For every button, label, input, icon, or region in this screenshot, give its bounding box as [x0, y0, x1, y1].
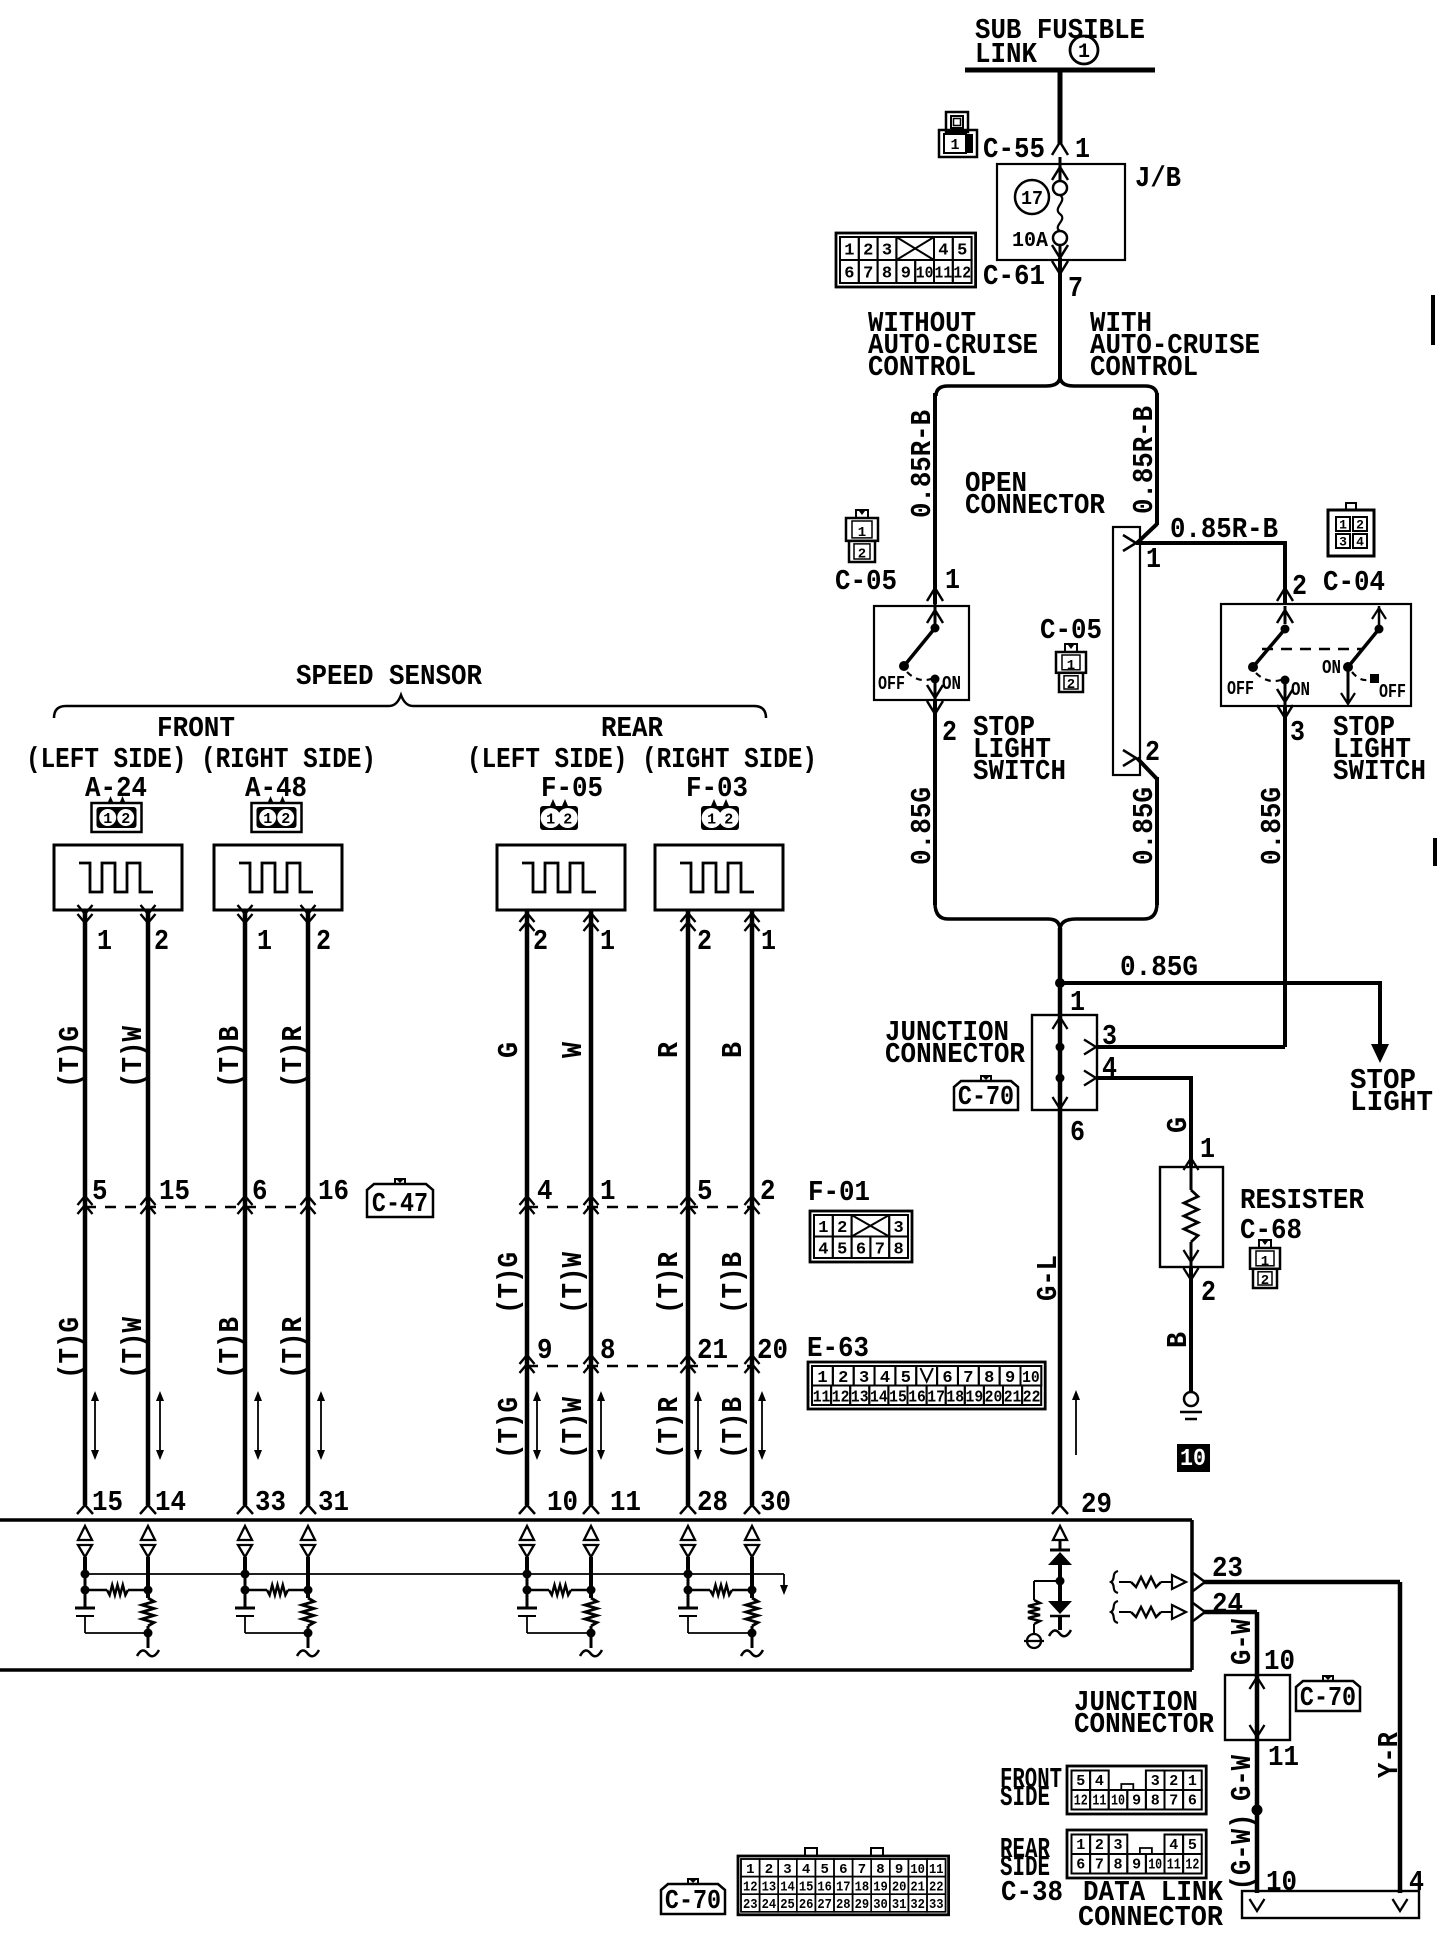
svg-text:24: 24	[762, 1897, 777, 1913]
svg-text:22: 22	[929, 1879, 944, 1895]
svg-text:17: 17	[927, 1388, 945, 1407]
svg-text:8: 8	[882, 265, 892, 284]
svg-text:R: R	[653, 1041, 686, 1058]
svg-text:11: 11	[813, 1388, 831, 1407]
svg-text:5: 5	[92, 1175, 108, 1208]
svg-text:11: 11	[1268, 1741, 1299, 1774]
svg-text:3: 3	[1339, 535, 1347, 550]
svg-text:15: 15	[159, 1175, 190, 1208]
svg-text:10: 10	[547, 1486, 578, 1519]
svg-text:CONNECTOR: CONNECTOR	[885, 1038, 1026, 1071]
svg-text:0.85R-B: 0.85R-B	[1128, 406, 1161, 514]
svg-text:25: 25	[780, 1897, 795, 1913]
svg-text:0.85R-B: 0.85R-B	[1170, 513, 1278, 546]
svg-text:12: 12	[953, 265, 971, 284]
svg-text:8: 8	[893, 1240, 903, 1259]
svg-text:11: 11	[610, 1486, 641, 1519]
svg-text:10: 10	[1264, 1645, 1295, 1678]
svg-text:F-05: F-05	[541, 772, 603, 805]
svg-text:4: 4	[938, 242, 948, 261]
svg-text:1: 1	[263, 811, 272, 828]
svg-text:1: 1	[746, 1862, 754, 1878]
svg-text:6: 6	[856, 1240, 866, 1259]
svg-text:2: 2	[563, 812, 572, 829]
svg-text:6: 6	[844, 265, 854, 284]
svg-text:2: 2	[1292, 570, 1307, 603]
svg-text:(T)R: (T)R	[653, 1396, 686, 1459]
svg-text:SIDE: SIDE	[1000, 1781, 1050, 1814]
svg-text:(T)B: (T)B	[214, 1026, 247, 1088]
svg-text:11: 11	[1092, 1793, 1106, 1810]
svg-text:(T)W: (T)W	[117, 1025, 150, 1088]
svg-text:1: 1	[1146, 543, 1161, 576]
svg-text:20: 20	[892, 1879, 907, 1895]
svg-text:G: G	[1162, 1117, 1195, 1133]
svg-text:1: 1	[103, 811, 112, 828]
svg-text:5: 5	[837, 1240, 847, 1259]
svg-text:(T)W: (T)W	[557, 1396, 590, 1459]
svg-text:1: 1	[1261, 1254, 1269, 1270]
svg-text:30: 30	[760, 1486, 791, 1519]
svg-text:1: 1	[818, 1219, 828, 1238]
svg-text:16: 16	[817, 1879, 832, 1895]
svg-text:(T)W: (T)W	[557, 1251, 590, 1314]
svg-text:2: 2	[281, 811, 290, 828]
svg-text:6: 6	[252, 1175, 268, 1208]
svg-text:9: 9	[1132, 1793, 1141, 1810]
svg-text:8: 8	[876, 1862, 884, 1878]
svg-text:13: 13	[762, 1879, 777, 1895]
svg-text:7: 7	[1169, 1793, 1178, 1810]
svg-text:2: 2	[1201, 1276, 1216, 1309]
svg-text:10: 10	[916, 265, 934, 284]
svg-text:10: 10	[1180, 1446, 1206, 1473]
svg-text:16: 16	[908, 1388, 926, 1407]
svg-text:A-48: A-48	[245, 772, 307, 805]
svg-text:8: 8	[600, 1334, 616, 1367]
svg-text:C-05: C-05	[835, 565, 897, 598]
svg-text:G-W: G-W	[1226, 1754, 1259, 1801]
svg-text:(T)B: (T)B	[717, 1397, 750, 1459]
svg-text:1: 1	[1075, 133, 1090, 166]
svg-text:SWITCH: SWITCH	[1333, 755, 1426, 788]
svg-text:19: 19	[873, 1879, 888, 1895]
svg-text:10: 10	[1266, 1866, 1297, 1899]
svg-text:6: 6	[839, 1862, 847, 1878]
svg-text:2: 2	[760, 1175, 776, 1208]
svg-text:29: 29	[1081, 1488, 1112, 1521]
svg-text:20: 20	[757, 1334, 788, 1367]
svg-text:14: 14	[780, 1879, 795, 1895]
svg-text:12: 12	[1074, 1793, 1088, 1810]
svg-text:2: 2	[1095, 1837, 1104, 1854]
svg-text:4: 4	[818, 1240, 828, 1259]
svg-text:C-04: C-04	[1323, 566, 1385, 599]
svg-text:SWITCH: SWITCH	[973, 755, 1066, 788]
svg-text:15: 15	[889, 1388, 907, 1407]
svg-text:E-63: E-63	[807, 1332, 869, 1365]
svg-text:(T)G: (T)G	[54, 1317, 87, 1379]
svg-text:11: 11	[1167, 1857, 1181, 1874]
svg-text:1: 1	[1339, 518, 1347, 533]
svg-text:B: B	[1162, 1332, 1195, 1348]
svg-text:(LEFT SIDE) (RIGHT SIDE): (LEFT SIDE) (RIGHT SIDE)	[467, 743, 817, 776]
svg-text:B: B	[717, 1042, 750, 1058]
svg-text:2: 2	[765, 1862, 773, 1878]
svg-text:7: 7	[858, 1862, 866, 1878]
svg-text:9: 9	[537, 1334, 553, 1367]
svg-text:2: 2	[154, 925, 169, 958]
svg-text:29: 29	[855, 1897, 870, 1913]
svg-text:6: 6	[1076, 1857, 1085, 1874]
svg-text:3: 3	[1151, 1773, 1160, 1790]
svg-text:32: 32	[910, 1897, 925, 1913]
svg-text:28: 28	[697, 1486, 728, 1519]
svg-text:1: 1	[257, 925, 272, 958]
svg-text:28: 28	[836, 1897, 851, 1913]
svg-text:OFF: OFF	[878, 673, 905, 695]
svg-text:1: 1	[97, 925, 112, 958]
svg-text:(G-W): (G-W)	[1226, 1814, 1259, 1891]
svg-text:33: 33	[929, 1897, 944, 1913]
svg-text:15: 15	[799, 1879, 814, 1895]
svg-text:2: 2	[316, 925, 331, 958]
svg-text:(LEFT SIDE) (RIGHT SIDE): (LEFT SIDE) (RIGHT SIDE)	[26, 743, 376, 776]
svg-text:0.85G: 0.85G	[1128, 787, 1161, 865]
svg-text:4: 4	[1095, 1773, 1104, 1790]
svg-text:1: 1	[844, 242, 854, 261]
svg-text:22: 22	[1023, 1388, 1041, 1407]
svg-text:9: 9	[895, 1862, 903, 1878]
svg-text:2: 2	[697, 925, 712, 958]
svg-text:CONNECTOR: CONNECTOR	[1074, 1708, 1215, 1741]
svg-text:CONNECTOR: CONNECTOR	[965, 489, 1106, 522]
svg-text:G: G	[493, 1042, 526, 1058]
svg-text:C-70: C-70	[1300, 1684, 1356, 1714]
svg-text:F-01: F-01	[808, 1176, 870, 1209]
svg-text:1: 1	[1200, 1133, 1215, 1166]
svg-text:4: 4	[1102, 1052, 1117, 1085]
svg-text:1: 1	[950, 137, 959, 154]
svg-text:4: 4	[1169, 1837, 1178, 1854]
svg-text:13: 13	[851, 1388, 869, 1407]
svg-text:11: 11	[929, 1862, 944, 1878]
svg-text:24: 24	[1212, 1588, 1243, 1621]
svg-text:2: 2	[533, 925, 548, 958]
svg-text:14: 14	[870, 1388, 888, 1407]
svg-text:20: 20	[985, 1388, 1003, 1407]
svg-text:C-55: C-55	[983, 133, 1045, 166]
svg-text:LINK: LINK	[975, 38, 1038, 71]
svg-text:12: 12	[832, 1388, 850, 1407]
svg-text:10: 10	[1148, 1857, 1162, 1874]
svg-text:9: 9	[1132, 1857, 1141, 1874]
svg-text:3: 3	[1113, 1837, 1122, 1854]
svg-text:1: 1	[546, 812, 555, 829]
svg-text:3: 3	[882, 242, 892, 261]
svg-text:30: 30	[873, 1897, 888, 1913]
svg-text:(T)B: (T)B	[717, 1252, 750, 1314]
svg-text:3: 3	[1102, 1020, 1117, 1053]
svg-text:18: 18	[855, 1879, 870, 1895]
svg-text:10: 10	[1111, 1793, 1125, 1810]
svg-text:CONNECTOR: CONNECTOR	[1078, 1901, 1224, 1934]
svg-text:FRONT: FRONT	[157, 712, 235, 745]
svg-text:8: 8	[1151, 1793, 1160, 1810]
svg-text:21: 21	[697, 1334, 728, 1367]
svg-text:2: 2	[1145, 736, 1160, 769]
svg-text:J/B: J/B	[1135, 162, 1181, 195]
svg-text:1: 1	[1078, 41, 1090, 64]
svg-text:4: 4	[537, 1175, 553, 1208]
svg-text:8: 8	[1113, 1857, 1122, 1874]
svg-text:7: 7	[863, 265, 873, 284]
svg-text:4: 4	[802, 1862, 810, 1878]
svg-text:3: 3	[893, 1219, 903, 1238]
svg-text:1: 1	[1070, 986, 1085, 1019]
svg-text:5: 5	[1188, 1837, 1197, 1854]
svg-text:(T)R: (T)R	[277, 1316, 310, 1379]
svg-text:REAR: REAR	[601, 712, 664, 745]
svg-text:4: 4	[1409, 1866, 1424, 1899]
svg-text:A-24: A-24	[85, 772, 147, 805]
svg-text:31: 31	[318, 1486, 349, 1519]
svg-text:18: 18	[946, 1388, 964, 1407]
svg-text:23: 23	[743, 1897, 758, 1913]
svg-text:2: 2	[1067, 677, 1075, 693]
svg-text:9: 9	[901, 265, 911, 284]
svg-text:0.85G: 0.85G	[1256, 787, 1289, 865]
svg-text:0.85G: 0.85G	[1120, 951, 1198, 984]
svg-text:1: 1	[945, 564, 960, 597]
svg-text:7: 7	[875, 1240, 885, 1259]
svg-text:2: 2	[1356, 518, 1364, 533]
svg-text:10: 10	[910, 1862, 925, 1878]
svg-text:1: 1	[600, 925, 615, 958]
svg-text:Y-R: Y-R	[1373, 1731, 1406, 1778]
svg-text:OFF: OFF	[1379, 681, 1406, 703]
svg-text:(T)G: (T)G	[54, 1026, 87, 1088]
svg-text:2: 2	[1261, 1273, 1269, 1289]
svg-text:3: 3	[783, 1862, 791, 1878]
svg-text:(T)B: (T)B	[214, 1317, 247, 1379]
svg-text:C-70: C-70	[665, 1887, 721, 1917]
svg-text:CONTROL: CONTROL	[1090, 351, 1198, 384]
svg-text:(T)R: (T)R	[277, 1025, 310, 1088]
svg-text:C-47: C-47	[372, 1190, 428, 1220]
svg-text:3: 3	[1290, 716, 1305, 749]
svg-text:31: 31	[892, 1897, 907, 1913]
svg-text:5: 5	[820, 1862, 828, 1878]
svg-text:1: 1	[600, 1175, 616, 1208]
svg-text:OFF: OFF	[1227, 678, 1254, 700]
svg-text:C-05: C-05	[1040, 614, 1102, 647]
svg-text:12: 12	[1185, 1857, 1199, 1874]
svg-text:(T)R: (T)R	[653, 1251, 686, 1314]
svg-text:21: 21	[1004, 1388, 1022, 1407]
svg-text:RESISTER: RESISTER	[1240, 1184, 1365, 1217]
svg-text:2: 2	[942, 716, 957, 749]
svg-text:12: 12	[743, 1879, 758, 1895]
svg-text:1: 1	[858, 525, 866, 541]
svg-text:LIGHT: LIGHT	[1350, 1086, 1433, 1119]
svg-text:11: 11	[935, 265, 953, 284]
svg-text:C-70: C-70	[958, 1083, 1014, 1113]
svg-text:2: 2	[863, 242, 873, 261]
svg-text:5: 5	[1076, 1773, 1085, 1790]
svg-text:(T)G: (T)G	[493, 1252, 526, 1314]
svg-text:6: 6	[1188, 1793, 1197, 1810]
svg-text:7: 7	[1068, 272, 1083, 305]
svg-text:33: 33	[255, 1486, 286, 1519]
svg-text:27: 27	[817, 1897, 832, 1913]
svg-text:6: 6	[1070, 1116, 1085, 1149]
svg-text:G-W: G-W	[1226, 1618, 1259, 1665]
svg-text:CONTROL: CONTROL	[868, 351, 976, 384]
svg-text:15: 15	[92, 1486, 123, 1519]
svg-text:2: 2	[1169, 1773, 1178, 1790]
svg-text:1: 1	[761, 925, 776, 958]
svg-text:2: 2	[858, 546, 866, 562]
svg-text:5: 5	[957, 242, 967, 261]
svg-text:10A: 10A	[1012, 230, 1048, 253]
svg-text:19: 19	[966, 1388, 984, 1407]
svg-text:ON: ON	[942, 673, 961, 695]
svg-text:0.85R-B: 0.85R-B	[906, 410, 939, 518]
svg-text:5: 5	[697, 1175, 713, 1208]
svg-text:17: 17	[1021, 188, 1043, 210]
svg-text:0.85G: 0.85G	[906, 787, 939, 865]
svg-text:26: 26	[799, 1897, 814, 1913]
svg-text:2: 2	[121, 811, 130, 828]
svg-text:21: 21	[910, 1879, 925, 1895]
svg-text:SIDE: SIDE	[1000, 1851, 1050, 1884]
svg-text:7: 7	[1095, 1857, 1104, 1874]
svg-text:W: W	[557, 1041, 590, 1058]
svg-text:2: 2	[724, 812, 733, 829]
svg-text:(T)W: (T)W	[117, 1316, 150, 1379]
svg-text:14: 14	[155, 1486, 186, 1519]
svg-text:17: 17	[836, 1879, 851, 1895]
svg-text:(T)G: (T)G	[493, 1397, 526, 1459]
svg-text:2: 2	[837, 1219, 847, 1238]
svg-text:G-L: G-L	[1032, 1255, 1065, 1301]
svg-text:SPEED SENSOR: SPEED SENSOR	[296, 660, 483, 693]
svg-text:1: 1	[1067, 658, 1075, 674]
svg-text:16: 16	[318, 1175, 349, 1208]
svg-text:1: 1	[1076, 1837, 1085, 1854]
svg-text:F-03: F-03	[686, 772, 748, 805]
svg-text:ON: ON	[1322, 657, 1341, 679]
svg-text:1: 1	[1188, 1773, 1197, 1790]
svg-text:4: 4	[1356, 535, 1364, 550]
svg-text:1: 1	[707, 812, 716, 829]
svg-text:C-61: C-61	[983, 260, 1045, 293]
